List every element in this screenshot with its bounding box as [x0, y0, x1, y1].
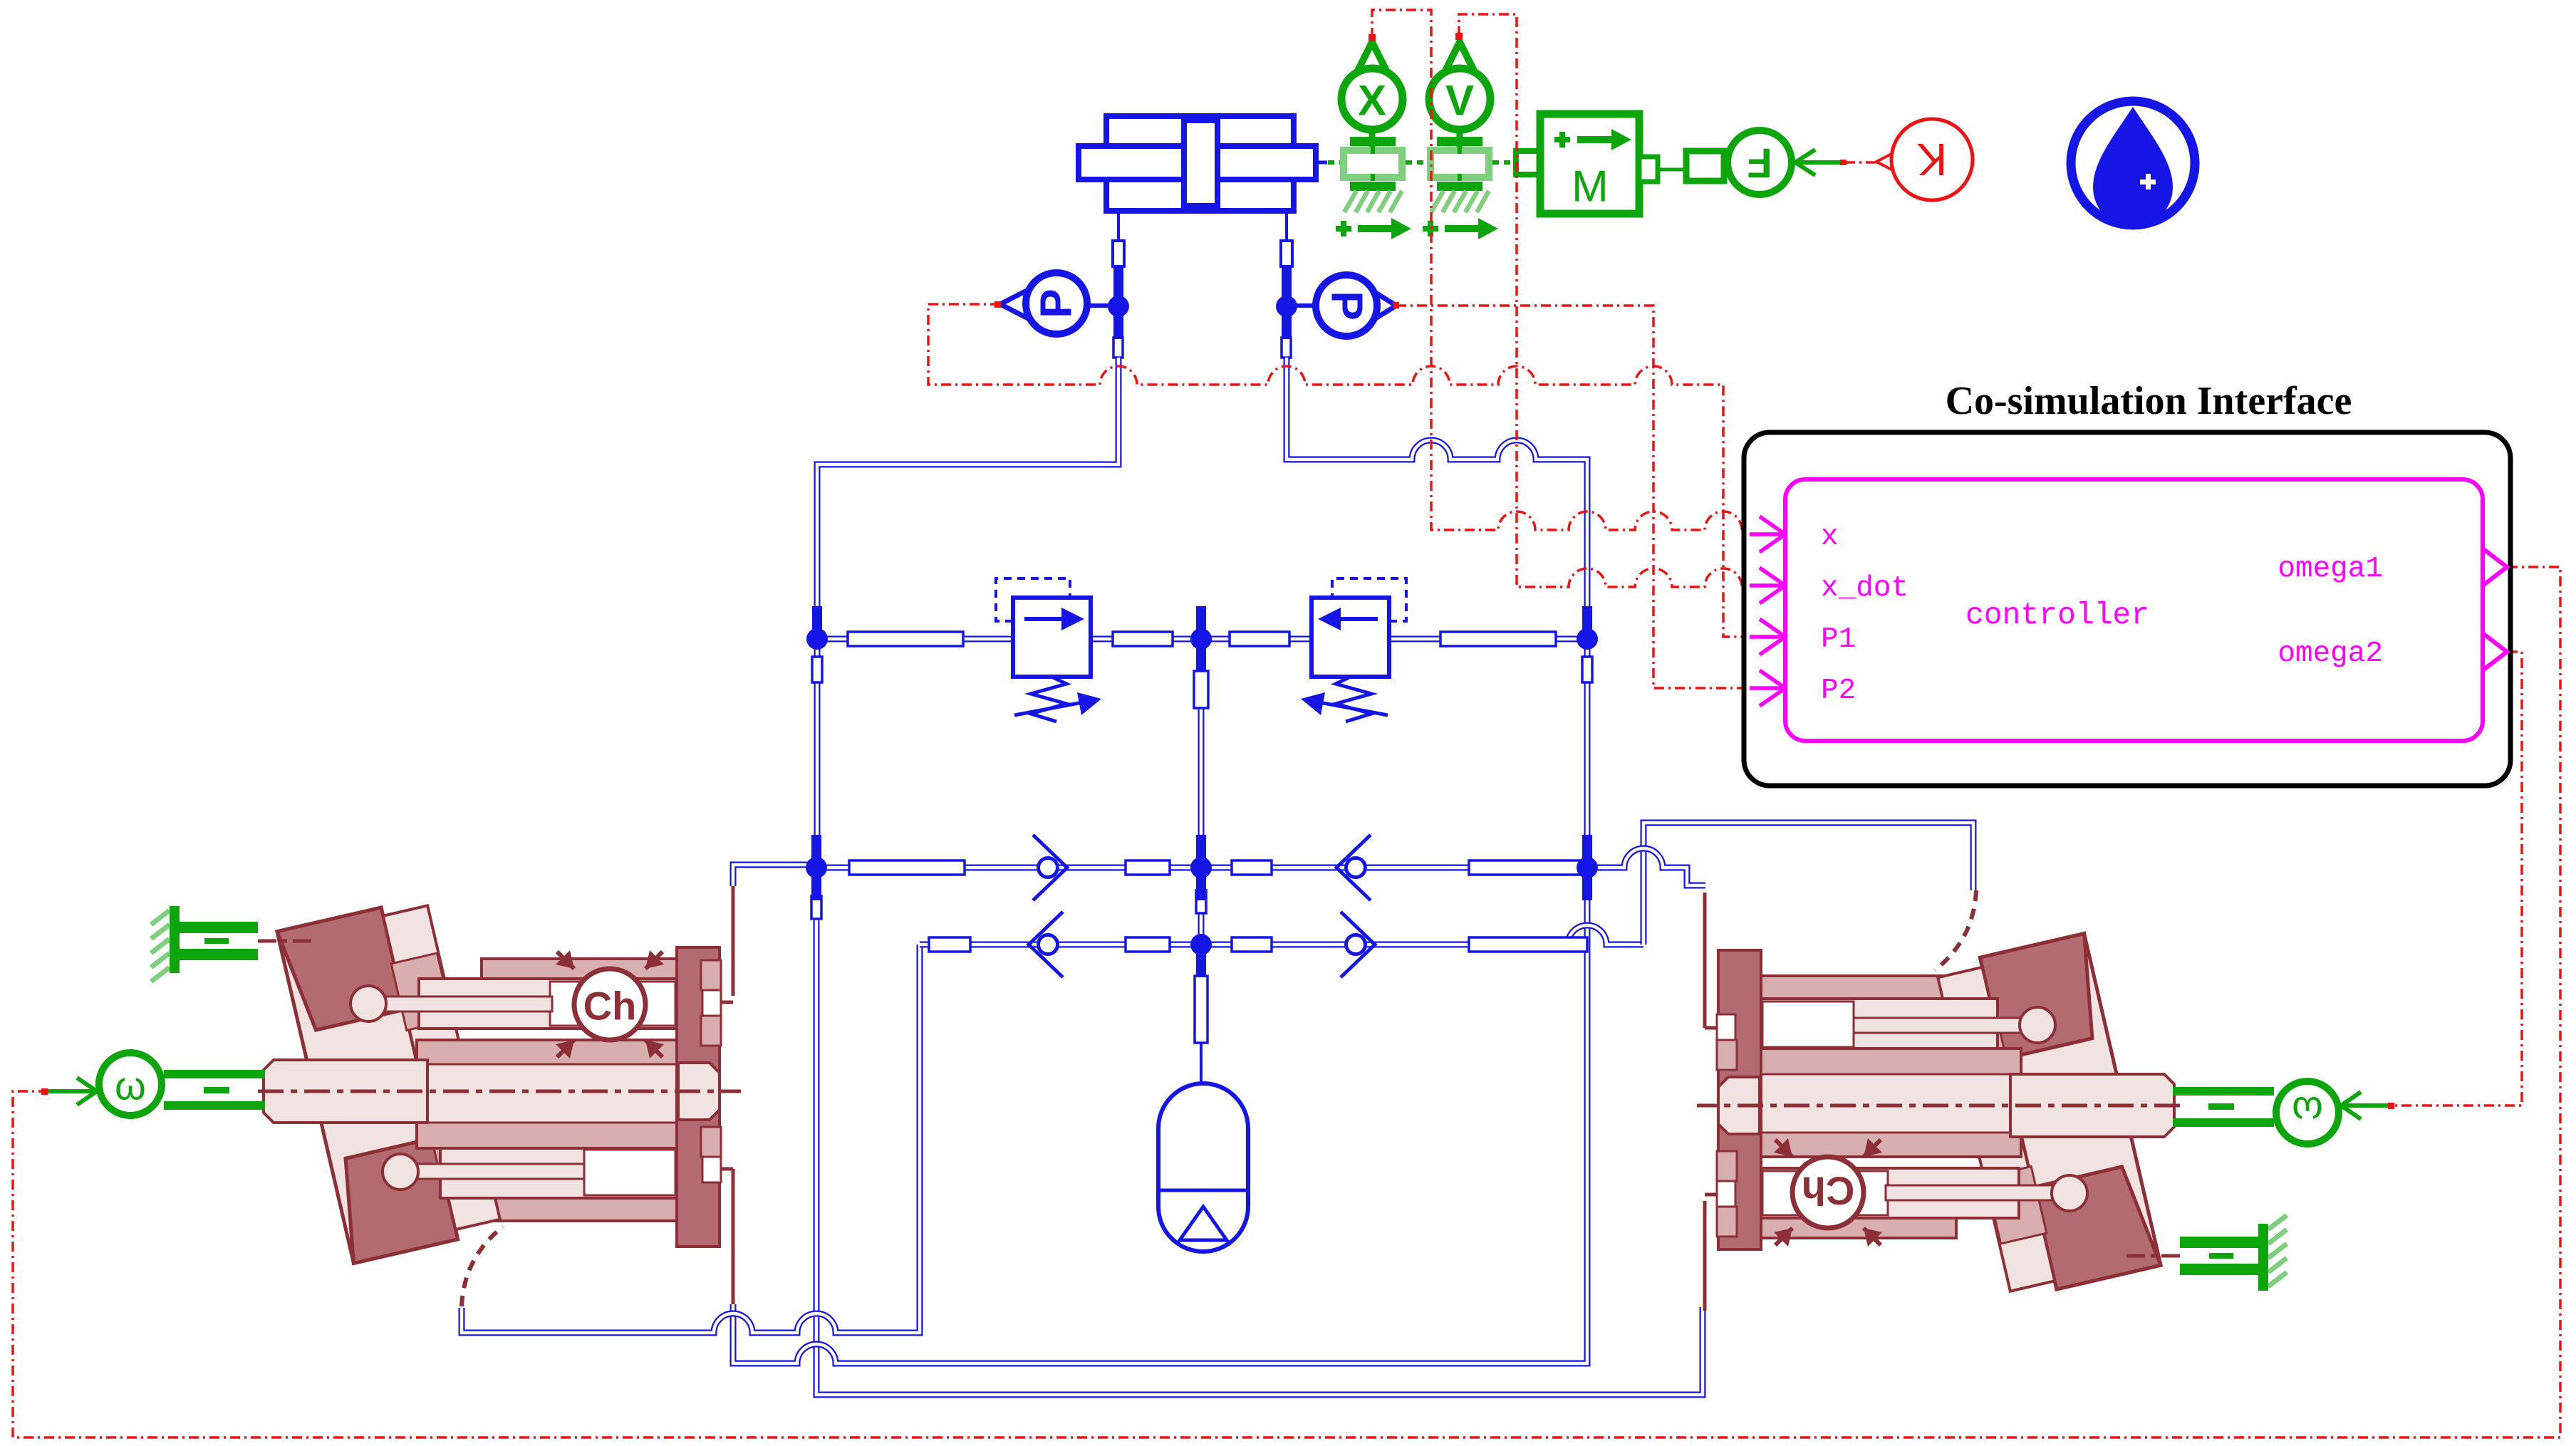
- svg-text:P2: P2: [1821, 675, 1856, 707]
- signal gain K: [1891, 119, 1973, 200]
- svg-text:V: V: [1445, 77, 1474, 125]
- hydraulic line element L18: [1196, 890, 1206, 913]
- link slider-slider: [1406, 160, 1427, 165]
- svg-text:X: X: [1358, 77, 1386, 125]
- left pump shaft right stub: [678, 1063, 720, 1120]
- hydraulic line element L4: [1440, 632, 1556, 646]
- wire pipe right relief junction to line A junction: [1584, 645, 1591, 862]
- relief valve RV2: [1312, 598, 1389, 677]
- junction node A: [1113, 274, 1123, 306]
- svg-text:controller: controller: [1965, 598, 2149, 633]
- left pump shaft: [2010, 1074, 2174, 1137]
- check valve CV3 (lower line left): [1039, 935, 1058, 955]
- wire K to F: [1845, 161, 1876, 164]
- charge flow label Ch: [574, 969, 645, 1040]
- wire below left P junction: [1113, 306, 1123, 336]
- junction node E: [1582, 606, 1592, 639]
- controller input P2: [1750, 670, 1785, 706]
- left pump bottom port line: [1705, 893, 1717, 1028]
- junction node C: [812, 606, 822, 639]
- wire pipe left relief junction to line A junction: [814, 645, 821, 862]
- left pump rotor block: [417, 1040, 716, 1148]
- svg-text:P1: P1: [1821, 623, 1856, 656]
- left pump bottom port line: [721, 1169, 733, 1304]
- controller input x_dot: [1750, 568, 1785, 603]
- left pump top manifold: [482, 959, 690, 983]
- hydraulic line element L7: [1232, 860, 1272, 875]
- hydraulic fluid properties icon: [2071, 101, 2195, 225]
- svg-text:ω: ω: [2292, 1089, 2323, 1134]
- wire pipe line A to right pump top port: [1591, 848, 1705, 885]
- wire pipe swash control line 1 (to left pump swashplate): [462, 945, 920, 1333]
- left pump valve block: [677, 947, 720, 1247]
- left pump lower piston: [1760, 999, 1998, 1050]
- controller input P1: [1750, 619, 1785, 655]
- hydraulic cylinder (double rod jack): [1106, 116, 1294, 211]
- junction node B: [1282, 274, 1292, 306]
- wire X sensor to controller input x: [1372, 10, 1755, 530]
- slider for V sensor: [1437, 137, 1482, 146]
- mass block M: [1540, 114, 1639, 214]
- link slider-mass: [1492, 160, 1516, 165]
- wire right cylinder port drop: [1285, 211, 1288, 241]
- svg-text:P: P: [1032, 288, 1081, 318]
- hydraulic line element L10: [1126, 937, 1170, 952]
- wire pipe relief valve line: [822, 636, 1583, 643]
- svg-text:x: x: [1821, 521, 1839, 553]
- wire pipe middle junction to lower line junction: [1198, 873, 1205, 939]
- junction node F: [811, 835, 821, 868]
- left pump upper piston: [1760, 1168, 2019, 1218]
- link rod-slider: [1328, 160, 1340, 165]
- svg-text:P: P: [1322, 291, 1371, 320]
- left pump shaft right stub: [1718, 1077, 1760, 1134]
- hydraulic line element L11: [1232, 937, 1272, 952]
- hydraulic line element L6: [1126, 860, 1170, 875]
- svg-text:K: K: [1917, 134, 1948, 185]
- right pump assembly (180 deg rotation): [1697, 890, 2391, 1311]
- left pump rotor block: [1722, 1049, 2021, 1157]
- left pump swash control dashed link: [462, 1227, 503, 1306]
- hydraulic line element L3: [1230, 632, 1289, 646]
- signal arrow into F: [1795, 150, 1844, 175]
- rotary speed source omega1: [2276, 1081, 2339, 1144]
- left pump top manifold: [1748, 1214, 1956, 1238]
- junction node G: [1196, 835, 1206, 868]
- hydraulic line element L8: [1469, 860, 1587, 875]
- wire left cylinder port drop: [1117, 211, 1120, 241]
- hydraulic line element L12: [1469, 937, 1587, 952]
- hydraulic line element L13: [1194, 671, 1208, 708]
- left pump top port line: [721, 886, 733, 1002]
- svg-text:omega1: omega1: [2278, 553, 2383, 586]
- anchor-swash dash link: [2126, 1254, 2180, 1258]
- wire pipe swash control to right pump swashplate: [1643, 823, 1973, 945]
- ground anchor (left pump swash): [151, 906, 258, 982]
- charge flow label Ch: [1792, 1157, 1864, 1228]
- svg-text:x_dot: x_dot: [1821, 572, 1908, 605]
- svg-text:Ch: Ch: [583, 984, 637, 1029]
- hydraulic line element L15: [812, 657, 822, 682]
- signal arrow into omega1: [2341, 1092, 2391, 1119]
- wire controller output omega2 to right pump speed source: [2392, 652, 2522, 1106]
- hydraulic line element L9: [929, 937, 970, 952]
- wire P1 sensor to controller input P1: [928, 304, 1755, 637]
- accumulator: [1158, 1083, 1248, 1252]
- wire pipe left junction down (to line 3): [816, 920, 1703, 1395]
- left pump swash control dashed link: [1935, 890, 1976, 970]
- left pump valve block: [1718, 950, 1761, 1249]
- anchor-swash dash link: [258, 940, 312, 943]
- svg-text:F: F: [1747, 140, 1772, 186]
- velocity sensor V: [1437, 34, 1482, 80]
- hydraulic line element L14: [1195, 976, 1207, 1043]
- left pump shaft: [264, 1060, 427, 1123]
- hydraulic line element L5: [849, 860, 965, 875]
- left pump assembly: [47, 886, 741, 1306]
- wire V sensor to controller input x_dot: [1459, 14, 1755, 587]
- pressure sensor P2: [1297, 303, 1316, 308]
- wire P2 sensor to controller input P2: [1396, 306, 1755, 688]
- svg-text:omega2: omega2: [2278, 638, 2383, 670]
- junction node D: [1196, 606, 1206, 639]
- signal arrow into omega1: [47, 1078, 97, 1105]
- hydraulic line element L2: [1113, 632, 1173, 646]
- junction node H: [1582, 835, 1592, 868]
- co-simulation interface frame: [1744, 432, 2510, 786]
- wire pipe line A: [822, 865, 1583, 871]
- svg-text:Co-simulation Interface: Co-simulation Interface: [1946, 379, 2352, 423]
- left pump lower piston: [440, 1147, 678, 1198]
- junction node I: [1196, 945, 1206, 977]
- check valve CV2 (line A right): [1346, 858, 1366, 878]
- check valve CV1 (line A left): [1039, 858, 1058, 878]
- relief valve RV1: [1013, 598, 1091, 677]
- wire pipe middle relief junction down: [1198, 645, 1205, 862]
- wire controller output omega1 to left pump speed source: [13, 567, 2560, 1437]
- left pump bottom manifold: [1748, 976, 1956, 1000]
- controller output omega2: [2483, 633, 2507, 670]
- left pump upper piston: [419, 979, 678, 1029]
- controller block: [1785, 479, 2483, 741]
- wire pipe line A left junction to left pump top port: [733, 865, 816, 886]
- left pump swashplate: [277, 898, 502, 1264]
- controller output omega1: [2483, 548, 2507, 586]
- controller input x: [1750, 516, 1785, 552]
- svg-text:M: M: [1572, 162, 1609, 212]
- wire pipe lower check line: [920, 925, 1643, 945]
- slider for X sensor: [1350, 137, 1396, 146]
- left pump shaft axis: [1697, 1104, 2180, 1108]
- mechanical link omega1-shaft: [164, 1070, 265, 1078]
- mechanical link omega1-shaft: [2173, 1118, 2274, 1127]
- ground anchor (left pump swash): [2180, 1215, 2287, 1291]
- left pump swashplate: [1936, 934, 2161, 1300]
- left pump shaft axis: [258, 1090, 741, 1093]
- left pump top port line: [1705, 1195, 1717, 1311]
- wire pipe left pump bottom port riser / line 2 to right junction: [733, 873, 1587, 1363]
- pressure sensor P1: [1087, 303, 1108, 308]
- displacement sensor X: [1349, 34, 1395, 80]
- wire pipe left cylinder branch to relief line: [817, 358, 1118, 633]
- rotary speed source omega1: [99, 1053, 162, 1115]
- wire below right P junction: [1282, 306, 1292, 336]
- hydraulic line element L1: [848, 632, 963, 646]
- wire pipe right cylinder branch to relief line (bumps over X,V signal lines): [1287, 358, 1587, 633]
- left pump bottom manifold: [482, 1197, 690, 1221]
- elastic link mass-force: [1658, 168, 1686, 172]
- hydraulic line element L17: [811, 896, 821, 919]
- force source F: [1728, 130, 1792, 194]
- wire pipe lower junction to accumulator: [1198, 950, 1205, 1041]
- check valve CV4 (lower line right): [1346, 935, 1366, 955]
- svg-text:Ch: Ch: [1802, 1169, 1855, 1214]
- hydraulic line element L16: [1582, 657, 1592, 682]
- svg-text:ω: ω: [115, 1063, 146, 1108]
